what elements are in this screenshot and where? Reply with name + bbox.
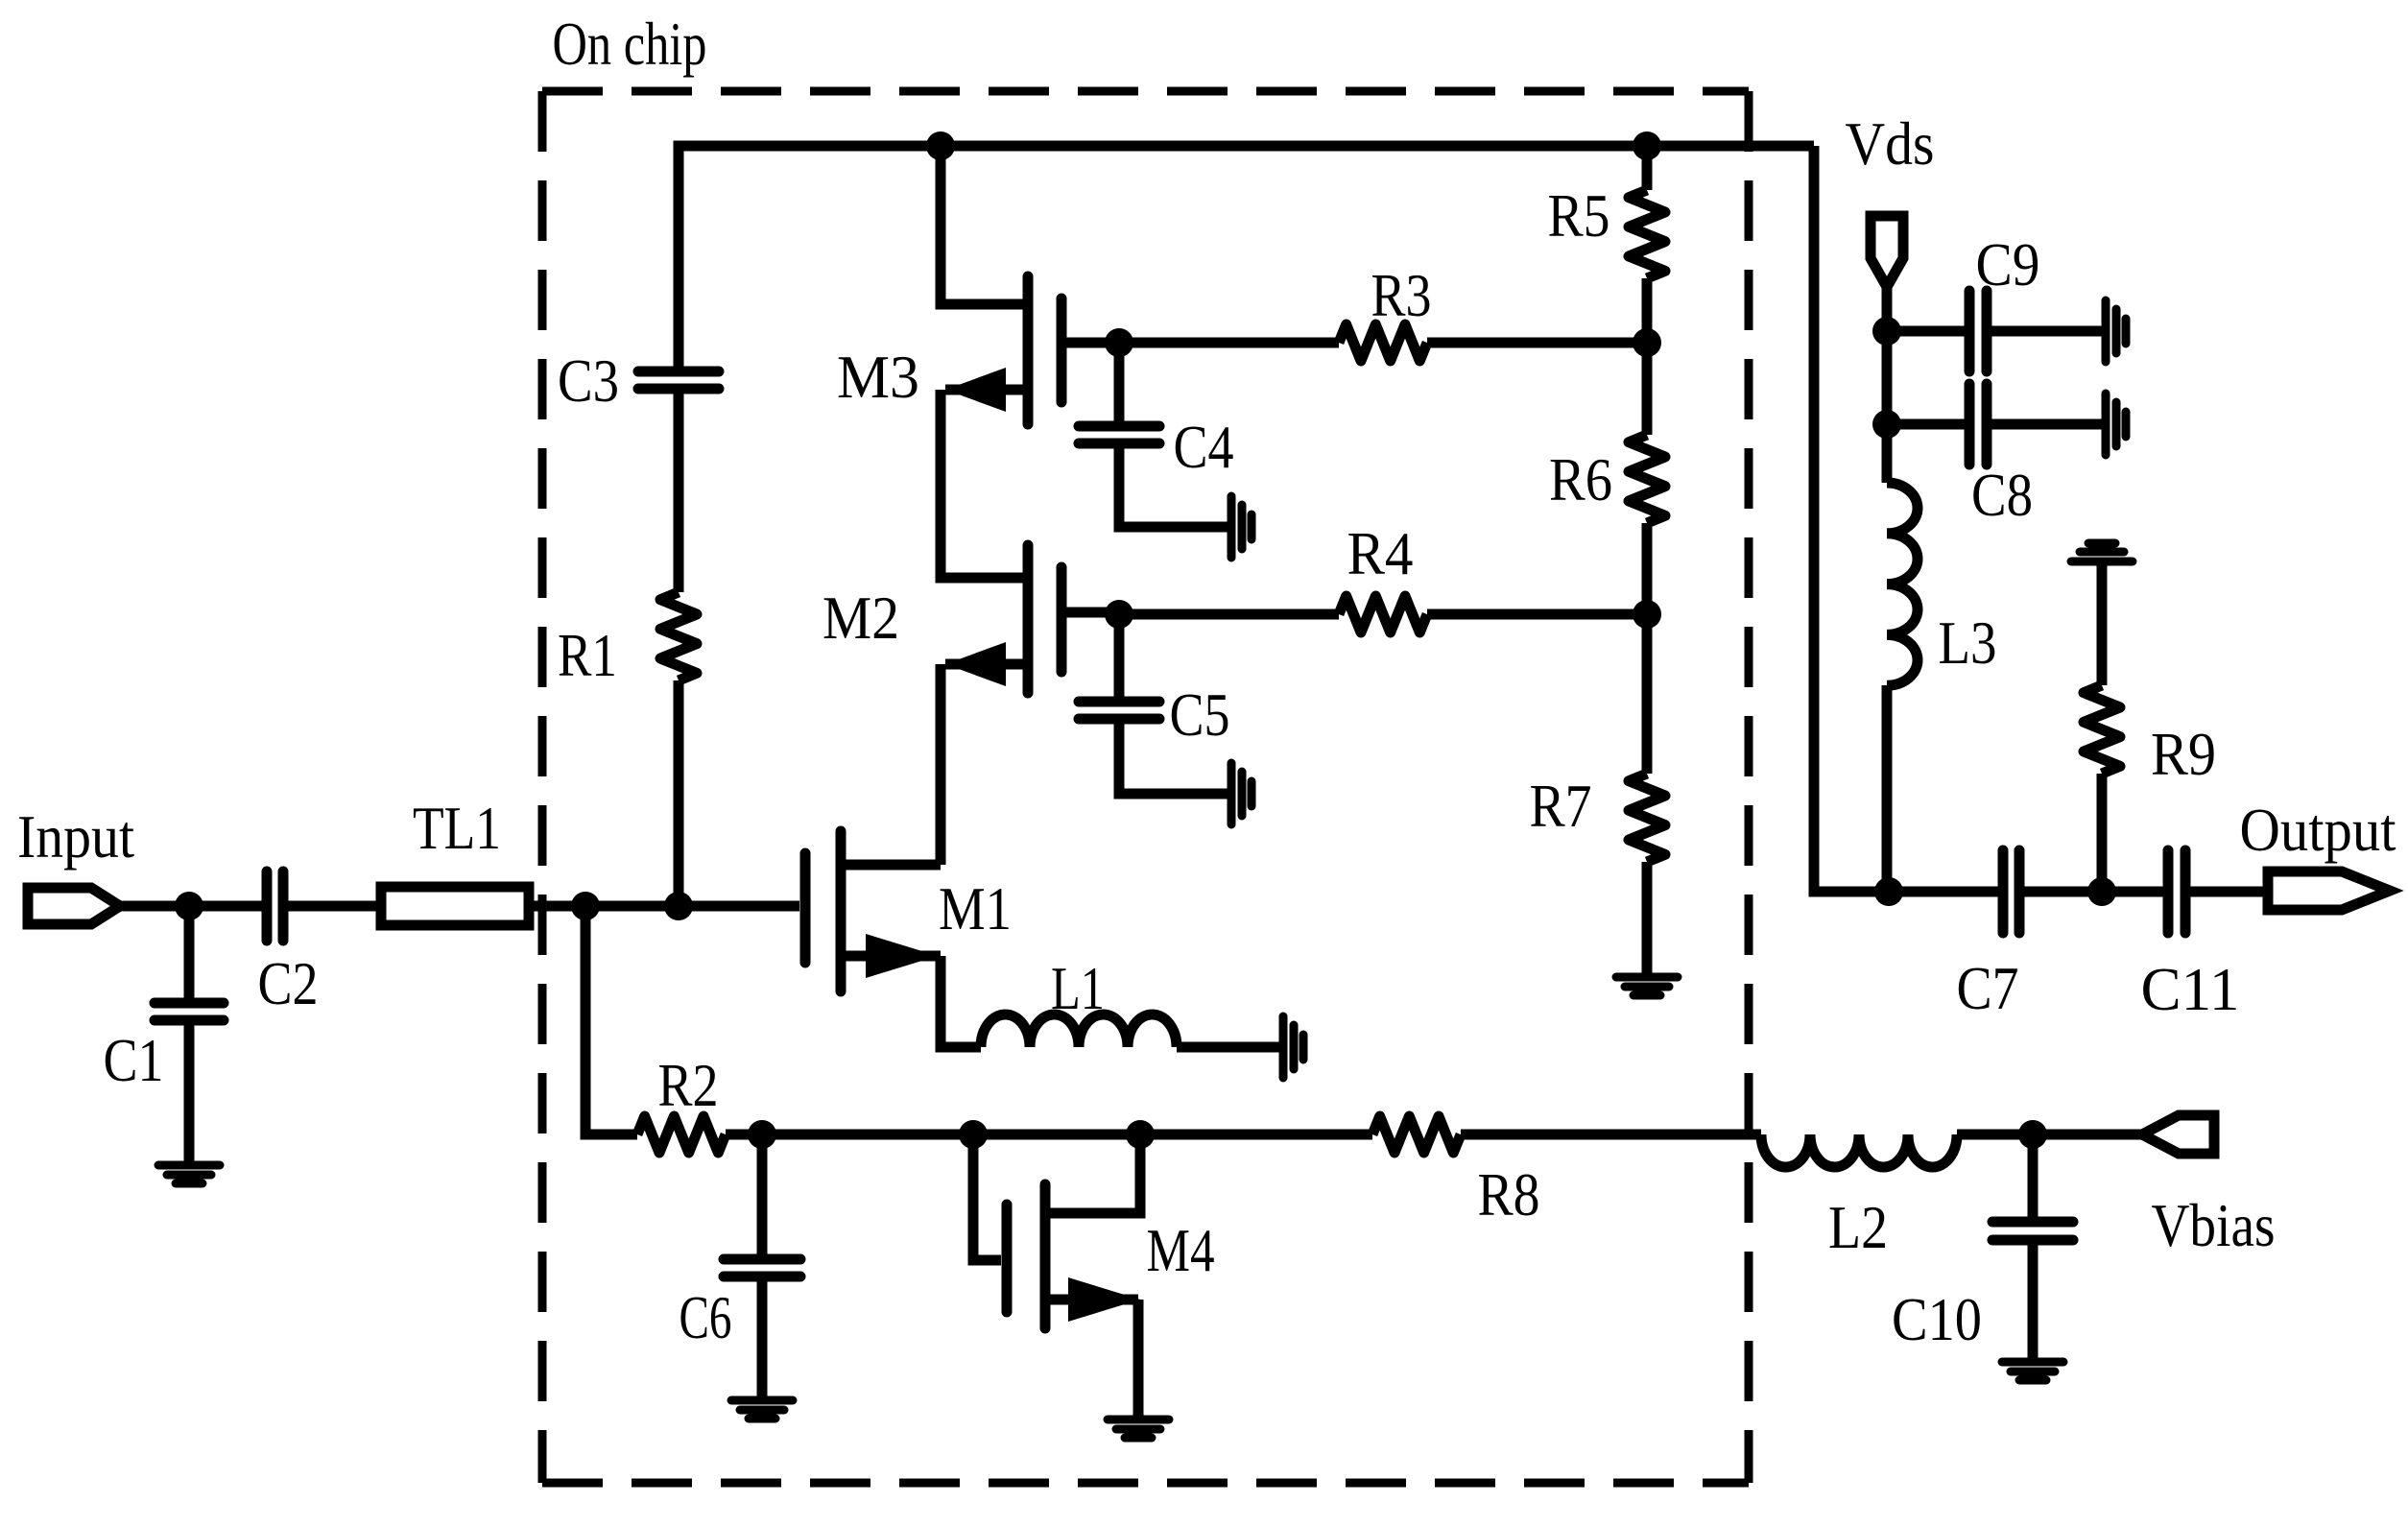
ground (flipped)	[2071, 543, 2133, 561]
svg-text:Input: Input	[17, 802, 134, 871]
junction node	[1105, 328, 1133, 357]
resistor R2	[637, 1116, 726, 1153]
svg-text:R3: R3	[1371, 261, 1432, 329]
wire — R7 to ground	[1642, 862, 1653, 977]
on-chip boundary (dashed box) top edge	[542, 87, 1749, 96]
junction node	[1874, 877, 1903, 906]
capacitor C8	[1969, 384, 1987, 465]
svg-text:L3: L3	[1939, 608, 1997, 677]
on-chip boundary left edge	[538, 91, 547, 1483]
svg-text:C2: C2	[258, 949, 319, 1017]
junction node	[1105, 600, 1133, 629]
wire — top bus to R5	[1642, 146, 1653, 190]
svg-text:C4: C4	[1174, 413, 1234, 481]
wire — top bus (C3 top to Vds corner)	[679, 146, 1814, 371]
svg-text:Vbias: Vbias	[2152, 1191, 2276, 1259]
capacitor C5	[1079, 702, 1159, 719]
capacitor C10	[1992, 1222, 2073, 1240]
svg-text:M2: M2	[823, 584, 899, 652]
resistor R7	[1629, 774, 1665, 862]
ground	[2106, 300, 2126, 362]
capacitor C2	[267, 871, 283, 941]
inductor L1	[981, 1014, 1177, 1047]
wire — R6 to R7	[1642, 523, 1653, 774]
svg-text:R9: R9	[2151, 720, 2216, 788]
wire — R8 to L2	[1461, 1130, 1761, 1140]
wire — M2 source lead	[945, 659, 1028, 670]
transistor M2 gate bar	[1057, 567, 1067, 672]
svg-text:R5: R5	[1548, 181, 1610, 250]
wire — C8 to ground	[1987, 419, 2102, 430]
wire — R2 to R8	[726, 1130, 1372, 1140]
junction node	[2087, 877, 2116, 906]
wire — C9 to ground	[1987, 326, 2102, 337]
inductor L3	[1887, 483, 1918, 685]
junction node	[748, 1120, 776, 1149]
wire — L1 to ground	[1177, 1042, 1280, 1053]
transistor M2 channel bar	[1023, 545, 1034, 693]
junction node	[664, 892, 693, 920]
wire — C2 to TL1	[288, 901, 376, 912]
transmission line TL1	[381, 887, 529, 925]
resistor R1	[660, 592, 697, 680]
Output port connector	[2268, 871, 2390, 910]
ground	[1108, 1420, 1169, 1438]
svg-text:R4: R4	[1347, 519, 1414, 587]
wire — Vbias node to C10	[2028, 1134, 2038, 1217]
wire — Vds port to node	[1882, 287, 1893, 331]
wire — TL1 to M1 gate	[534, 901, 799, 912]
svg-text:M1: M1	[939, 874, 1012, 942]
svg-text:C5: C5	[1170, 680, 1230, 749]
wire — C9 node to C8 node	[1882, 331, 1893, 424]
wire — input to C2	[120, 901, 262, 912]
svg-text:C1: C1	[104, 1026, 164, 1094]
junction node	[571, 892, 600, 920]
svg-text:C8: C8	[1971, 461, 2033, 529]
wire — C8 node to L3	[1882, 424, 1893, 483]
svg-text:TL1: TL1	[413, 794, 501, 862]
svg-text:L1: L1	[1051, 954, 1105, 1022]
wire — node down to C1	[184, 906, 195, 998]
capacitor C4	[1079, 426, 1159, 443]
wire — top bus down to M3 drain	[941, 146, 1028, 304]
junction node	[1872, 317, 1901, 346]
wire — M2 gate to R4	[1119, 609, 1339, 620]
M3 source arrow	[945, 368, 1006, 412]
ground	[158, 1165, 220, 1183]
transistor M4 channel bar	[1040, 1184, 1051, 1328]
junction node	[1633, 328, 1661, 357]
inductor L2	[1761, 1134, 1957, 1167]
resistor R9	[2084, 685, 2120, 774]
capacitor C1	[155, 1003, 224, 1020]
input port connector	[28, 888, 120, 924]
wire — M3 gate node to C4	[1114, 343, 1125, 421]
transistor M4 gate bar	[1002, 1205, 1013, 1312]
wire — bias node to C6	[757, 1134, 768, 1254]
capacitor C7	[2003, 850, 2019, 933]
wire — C3 to R1	[674, 389, 684, 592]
svg-text:C11: C11	[2141, 955, 2240, 1023]
wire — C7 to C11	[2019, 887, 2163, 897]
wire — ground to R9	[2097, 562, 2108, 685]
wire — M3 gate lead	[1061, 338, 1119, 348]
wire — M1 drain lead	[843, 860, 941, 871]
ground	[2106, 394, 2126, 455]
resistor R6	[1629, 435, 1665, 523]
M4 source arrow	[1068, 1277, 1140, 1322]
junction node	[1633, 131, 1661, 160]
junction node	[926, 131, 955, 160]
svg-text:C7: C7	[1957, 954, 2019, 1022]
svg-text:M4: M4	[1147, 1216, 1215, 1284]
ground	[1231, 763, 1252, 824]
wire — M2 gate lead	[1061, 608, 1119, 618]
resistor R3	[1339, 324, 1427, 361]
wire — M4 source to ground	[1133, 1300, 1144, 1420]
ground	[731, 1400, 793, 1419]
wire — C11 to output port	[2185, 887, 2268, 897]
svg-text:On chip: On chip	[553, 10, 707, 78]
resistor R5	[1629, 190, 1665, 278]
svg-text:R1: R1	[558, 621, 617, 689]
svg-text:C9: C9	[1976, 230, 2040, 298]
wire — L2 to Vbias port	[1957, 1130, 2142, 1140]
wire — R5 to R6	[1642, 278, 1653, 435]
ground	[1231, 496, 1252, 558]
svg-text:Output: Output	[2240, 796, 2396, 864]
svg-text:R8: R8	[1478, 1160, 1540, 1229]
M2 source arrow	[945, 642, 1006, 686]
wire — M4 gate lead	[973, 1134, 1001, 1260]
wire — C10 to ground	[2028, 1240, 2038, 1362]
wire — C6 to ground	[757, 1276, 768, 1400]
wire — M4 drain lead	[1047, 1134, 1140, 1213]
Vds port connector	[1871, 216, 1903, 287]
wire — C5 to ground	[1119, 719, 1228, 794]
wire — node to C8	[1887, 419, 1965, 430]
wire — M3 gate to R3	[1119, 338, 1339, 348]
on-chip boundary bottom edge	[542, 1479, 1749, 1488]
transistor M1 gate bar	[800, 853, 811, 963]
capacitor C11	[2168, 850, 2185, 933]
transistor M3 channel bar	[1023, 276, 1034, 424]
wire — R1 to input row	[674, 680, 684, 906]
wire — L3 to output row	[1882, 685, 1893, 892]
transistor M3 gate bar	[1057, 298, 1067, 402]
wire — R4 to divider	[1427, 609, 1647, 620]
svg-text:R6: R6	[1549, 445, 1612, 513]
wire — M2 gate node to C5	[1114, 614, 1125, 697]
svg-text:C3: C3	[558, 346, 619, 415]
wire — M3 source down to M2 drain	[941, 390, 1028, 578]
transistor M1 channel bar	[836, 831, 846, 991]
M1 source arrow	[866, 934, 938, 978]
wire — R3 to divider	[1427, 338, 1647, 348]
svg-text:C6: C6	[679, 1283, 732, 1351]
wire — C4 to ground	[1119, 443, 1228, 527]
wire — M3 source lead	[945, 385, 1028, 395]
Vbias port connector	[2142, 1115, 2214, 1154]
junction node	[2018, 1120, 2047, 1149]
resistor R8	[1372, 1116, 1461, 1153]
svg-text:R7: R7	[1530, 772, 1592, 840]
wire — R9 to output row	[2097, 774, 2108, 892]
svg-text:L2: L2	[1828, 1193, 1888, 1261]
junction node	[1872, 410, 1901, 439]
svg-text:R2: R2	[658, 1051, 719, 1119]
wire — M1 source lead	[843, 951, 941, 962]
ground	[2002, 1362, 2063, 1380]
wire — input node down to R2	[585, 906, 637, 1134]
wire — Vds bus down to output row	[1814, 146, 1889, 892]
wire — node to C7	[1889, 887, 1998, 897]
wire — M1 source down to L1	[941, 956, 981, 1047]
wire — C1 to ground	[184, 1020, 195, 1165]
junction node	[959, 1120, 988, 1149]
capacitor C9	[1969, 291, 1987, 371]
ground	[1283, 1016, 1303, 1078]
wire — M4 source lead	[1047, 1295, 1138, 1305]
on-chip boundary right edge	[1745, 91, 1753, 1483]
svg-text:Vds: Vds	[1846, 109, 1935, 178]
wire — M1 drain up to M2 source	[936, 664, 946, 865]
svg-text:M3: M3	[837, 343, 919, 411]
ground	[1616, 977, 1678, 995]
junction node	[175, 892, 203, 920]
wire — node to C9	[1887, 326, 1965, 337]
resistor R4	[1339, 596, 1427, 632]
junction node	[1126, 1120, 1155, 1149]
svg-text:C10: C10	[1892, 1285, 1982, 1353]
capacitor C3	[638, 371, 719, 389]
junction node	[1633, 600, 1661, 629]
capacitor C6	[724, 1259, 800, 1276]
